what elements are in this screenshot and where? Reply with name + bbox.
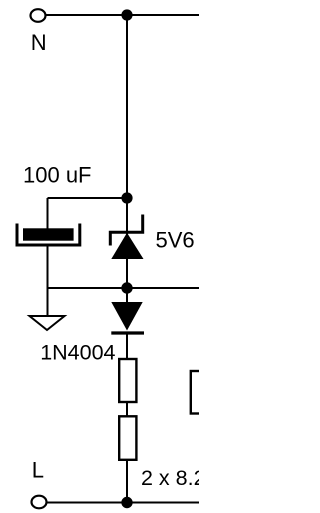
resistor R2	[119, 416, 136, 460]
resistor R1	[119, 359, 136, 402]
node junction dot capacitor branch	[121, 192, 132, 203]
node junction dot mid rail	[121, 282, 132, 293]
wire capacitor top lead	[47, 198, 49, 230]
wire main vertical (top rail to diode D1)	[126, 15, 128, 302]
svg-text:5V6: 5V6	[156, 228, 195, 253]
svg-text:1N4004: 1N4004	[40, 341, 115, 365]
node junction dot top rail	[121, 9, 132, 20]
wire bottom rail L	[46, 502, 199, 504]
resistor R3 (cut off at right edge)	[191, 371, 221, 414]
svg-text:100 uF: 100 uF	[23, 163, 92, 188]
wire top rail N	[45, 14, 199, 16]
node junction dot bottom rail	[121, 497, 132, 508]
wire diode D1 to resistor R1	[126, 333, 128, 360]
zener diode D2 5V6	[110, 215, 143, 260]
terminal N	[31, 9, 46, 22]
terminal L	[32, 496, 47, 509]
wire mid rail horizontal	[48, 287, 200, 289]
svg-text:L: L	[32, 458, 44, 483]
diode D1 1N4004	[111, 302, 144, 333]
capacitor C1 (polarized electrolytic)	[17, 224, 80, 246]
svg-text:2 x 8.2: 2 x 8.2	[141, 466, 199, 490]
wire capacitor branch horizontal	[48, 197, 128, 199]
svg-text:N: N	[31, 30, 47, 55]
wire resistor R2 to bottom rail	[126, 460, 128, 503]
wire resistor R1 to resistor R2	[126, 402, 128, 417]
ground	[30, 316, 65, 330]
wire capacitor bottom lead to ground stub	[47, 245, 49, 316]
